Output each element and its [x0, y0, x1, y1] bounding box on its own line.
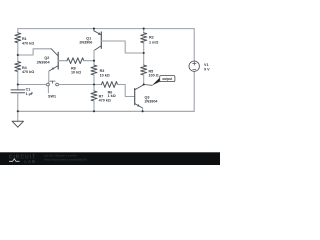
- resistor R7: [91, 91, 97, 101]
- wire bottom rail: [18, 110, 194, 112]
- wire R8 to node A: [84, 60, 94, 62]
- svg-text:http://circuitlab.com/c8d8s8d: http://circuitlab.com/c8d8s8d: [44, 158, 87, 162]
- wire C1 node to SW1 left: [18, 84, 47, 86]
- transistor Q3 2N3904: [135, 85, 144, 108]
- svg-text:Q3: Q3: [145, 95, 150, 99]
- svg-text:470 kΩ: 470 kΩ: [22, 41, 34, 45]
- label R8 10 kOhm: [71, 66, 81, 74]
- resistor R2: [143, 29, 145, 33]
- node output flag: [144, 84, 153, 87]
- CircuitLab logo: [9, 155, 36, 164]
- voltage source V1: [193, 29, 195, 62]
- svg-text:R1: R1: [22, 37, 27, 41]
- transistor Q2 2N3904: [49, 49, 58, 71]
- svg-text:470 kΩ: 470 kΩ: [22, 70, 34, 74]
- wire R1 top lead: [17, 29, 19, 33]
- label R6 1 kOhm: [108, 90, 116, 98]
- svg-text:1 µF: 1 µF: [26, 92, 34, 96]
- wire Q3 emitter to rail: [142, 108, 144, 111]
- wire R7 bottom to rail: [93, 101, 95, 111]
- label R7 470 kOhm: [99, 95, 111, 103]
- svg-text:1 kΩ: 1 kΩ: [108, 94, 116, 98]
- svg-text:9 V: 9 V: [204, 67, 210, 71]
- label V1 9 V: [204, 63, 210, 71]
- resistor R4: [15, 62, 21, 72]
- svg-text:R3: R3: [100, 69, 105, 73]
- label Q1 2N3906: [79, 37, 92, 45]
- resistor R6: [102, 82, 118, 88]
- wire Q2 emitter to SW1: [48, 71, 50, 83]
- wire SW1 right to node B and R6: [59, 84, 102, 86]
- svg-text:LAB: LAB: [24, 159, 36, 164]
- label R2 1 mOhm: [149, 36, 158, 45]
- svg-text:SW1: SW1: [48, 94, 56, 98]
- resistor R3: [91, 65, 97, 75]
- label C1 1uF: [26, 88, 34, 96]
- svg-text:2N3904: 2N3904: [37, 60, 51, 64]
- svg-text:10 kΩ: 10 kΩ: [71, 70, 81, 74]
- svg-text:output: output: [162, 77, 173, 81]
- wire R2 bottom to R5 top: [143, 43, 145, 65]
- transistor Q1 2N3906: [94, 29, 101, 51]
- svg-text:470 kΩ: 470 kΩ: [99, 99, 111, 103]
- label Q2 2N3904: [37, 56, 51, 64]
- wire node B to R7: [93, 85, 95, 92]
- wire R5 bottom to output node: [143, 75, 145, 84]
- wire top rail V+: [18, 28, 194, 30]
- wire C1 bottom to ground rail: [17, 93, 19, 122]
- wire Q1 base to R2 bottom: [101, 41, 143, 53]
- svg-text:100 Ω: 100 Ω: [149, 74, 159, 78]
- resistor R1: [15, 33, 21, 43]
- label R4 470 kOhm: [22, 66, 34, 74]
- wire R3 top lead: [93, 61, 95, 65]
- junction dots: [17, 28, 145, 113]
- footer bar: [0, 152, 220, 165]
- svg-text:Q2: Q2: [44, 56, 49, 60]
- label R3 10 kOhm: [100, 69, 110, 77]
- label Q3 2N3904: [145, 95, 159, 103]
- switch SW1: [47, 81, 59, 86]
- ground: [12, 121, 23, 127]
- svg-text:10 kΩ: 10 kΩ: [100, 74, 110, 78]
- label R1 470 kOhm: [22, 37, 34, 45]
- svg-text:2N3906: 2N3906: [79, 40, 92, 44]
- capacitor C1: [11, 90, 25, 93]
- wire Q2 base to R8: [58, 60, 67, 62]
- wire R3 bottom to node B: [93, 75, 95, 84]
- svg-text:2N3904: 2N3904: [145, 100, 159, 104]
- wire R6 to Q3 base: [117, 85, 135, 97]
- resistor R8: [67, 58, 84, 64]
- wire R1 bottom to R4 top: [17, 43, 19, 62]
- wire R1/R4 node to Q2 collector: [18, 49, 51, 55]
- wire R4 bottom to C1 node: [17, 72, 19, 90]
- wire Q1 collector to node A: [93, 51, 95, 61]
- resistor R5: [141, 65, 147, 75]
- label R5 100 Ohm: [149, 69, 159, 77]
- svg-text:R2: R2: [149, 36, 154, 40]
- svg-text:1 mΩ: 1 mΩ: [149, 40, 158, 44]
